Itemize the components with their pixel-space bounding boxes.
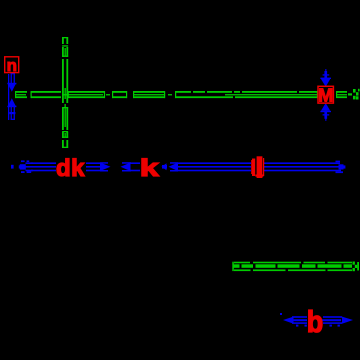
svg-text:M: M	[318, 85, 333, 105]
wire centerline break mark far right	[348, 89, 360, 100]
svg-text:b: b	[307, 306, 323, 340]
svg-text:k: k	[140, 155, 160, 182]
dimension line b (blue)	[280, 313, 353, 327]
label j (red)	[251, 156, 264, 178]
label M (red, boxed)	[318, 85, 333, 105]
wire lower phantom line (green dashed)	[232, 262, 359, 272]
svg-text:n: n	[7, 56, 17, 75]
dimension arrow n (vertical, blue)	[7, 73, 16, 120]
wire horizontal centerline (screw axis, dash-dot, outlined stroke)	[15, 91, 318, 98]
label n (red, boxed)	[5, 56, 19, 75]
wire vertical centerline (head axis, dash-dot)	[62, 37, 68, 148]
label b (red)	[307, 306, 323, 340]
dimension arrows M (vertical, blue)	[320, 69, 331, 121]
dimension chain line dk-k-j (blue)	[11, 160, 345, 173]
wire centerline stub right of M	[336, 91, 347, 98]
svg-text:dk: dk	[56, 155, 85, 182]
